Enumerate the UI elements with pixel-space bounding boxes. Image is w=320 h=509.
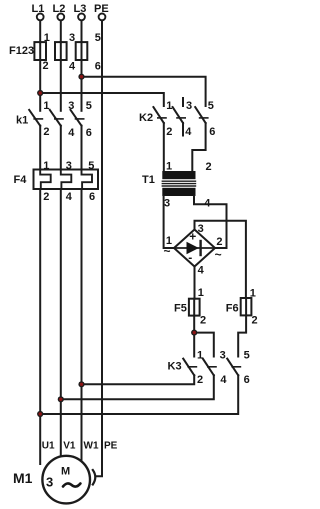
svg-text:2: 2 [206,161,212,173]
wire F6 to K3 pole 3 [238,315,246,356]
svg-text:5: 5 [88,160,94,172]
wire branch to K3 pole 2 [194,333,214,357]
node junction L1 [37,90,43,96]
svg-text:F123: F123 [9,45,34,57]
svg-text:+: + [189,230,196,244]
svg-text:1: 1 [250,287,256,299]
wire T1 pin4 to bridge [194,196,227,248]
node junction W1 [78,381,84,387]
fuse F5 [189,299,200,316]
terminal PE [99,14,106,21]
transformer T1 [162,171,195,196]
wire T1 pin3 to bridge [164,196,174,248]
svg-text:3: 3 [164,197,170,209]
svg-text:2: 2 [43,60,49,72]
node junction L3 [78,74,84,80]
svg-text:F5: F5 [174,303,187,315]
svg-text:1: 1 [44,32,50,44]
svg-text:3: 3 [186,100,192,112]
fuse F123 pole 1 [34,42,46,60]
svg-text:6: 6 [244,374,250,386]
svg-text:3: 3 [68,100,74,112]
wire L2 top [60,21,62,43]
motor M1 [42,456,95,504]
wire W1 column [81,189,83,462]
contactor K2 pole 3 [192,107,208,171]
wire PE vertical [96,21,102,477]
terminal L2 [57,14,64,21]
contactor K2 pole 2 [173,98,186,136]
svg-text:2: 2 [216,236,222,248]
svg-text:1: 1 [43,160,49,172]
svg-text:U1: U1 [42,441,55,452]
svg-text:F4: F4 [14,174,28,186]
svg-text:K2: K2 [139,112,153,124]
contactor K3 pole 3 [40,359,240,414]
wire U1 column [39,189,41,464]
svg-text:5: 5 [244,350,250,362]
svg-text:6: 6 [209,126,215,138]
svg-text:2: 2 [43,191,49,203]
svg-text:~: ~ [215,248,222,262]
svg-text:1: 1 [197,350,203,362]
wire L3 branch to K2 pole 3 [82,77,206,106]
contactor K3 pole 2 [61,359,216,400]
svg-text:-: - [188,251,192,265]
svg-text:T1: T1 [142,174,155,186]
svg-text:4: 4 [66,191,73,203]
svg-text:1: 1 [166,100,172,112]
svg-text:2: 2 [43,126,49,138]
svg-text:1: 1 [198,287,204,299]
svg-text:F6: F6 [226,303,239,315]
overload relay F4 [34,170,99,190]
contactor K2 pole 1 [153,107,166,171]
contactor k1 pole 2 [50,110,63,170]
terminal L1 [37,14,44,21]
svg-text:5: 5 [95,32,101,44]
svg-text:5: 5 [208,100,214,112]
svg-text:3: 3 [198,223,204,235]
node junction U1 [37,411,43,417]
svg-text:PE: PE [94,3,109,15]
svg-text:3: 3 [66,160,72,172]
wire L3 top [81,21,83,43]
contactor k1 pole 1 [29,110,42,170]
svg-text:M: M [61,466,70,478]
contactor k1 pole 3 [71,110,84,170]
svg-text:5: 5 [86,100,92,112]
svg-text:4: 4 [220,374,227,386]
wire L3 fuse to k1 [81,60,83,111]
wire bridge plus output [195,221,246,298]
node junction V1 [58,396,64,402]
wire L1 fuse to k1 [39,60,41,111]
svg-text:4: 4 [204,197,211,209]
wire L1 branch to K2 pole 1 [40,93,164,106]
wire L2 fuse to k1 [60,60,62,111]
svg-text:V1: V1 [63,441,76,452]
svg-text:W1: W1 [84,441,99,452]
fuse F6 [241,298,252,315]
wire L1 top [39,21,41,43]
wire V1 column [60,189,62,457]
svg-text:M1: M1 [13,470,33,486]
svg-text:3: 3 [69,32,75,44]
svg-text:~: ~ [164,244,171,258]
svg-text:3: 3 [46,475,53,490]
wire F5 to K3 pole 1 [193,316,195,357]
wire bridge minus output [194,267,196,299]
terminal L3 [78,14,85,21]
svg-text:2: 2 [166,126,172,138]
svg-text:4: 4 [68,127,75,139]
svg-text:6: 6 [89,191,95,203]
svg-text:2: 2 [200,315,206,327]
contactor K3 pole 1 [82,359,197,385]
svg-text:L1: L1 [32,3,45,15]
svg-text:6: 6 [95,61,101,73]
svg-text:2: 2 [197,374,203,386]
svg-text:6: 6 [86,127,92,139]
svg-text:K3: K3 [168,361,182,373]
svg-text:L2: L2 [53,3,66,15]
svg-text:4: 4 [198,264,205,276]
svg-text:PE: PE [104,441,118,452]
bridge rectifier [174,230,215,267]
node junction DC minus [191,330,197,336]
fuse F123 pole 3 [76,42,88,60]
fuse F123 pole 2 [55,42,67,60]
svg-text:4: 4 [185,126,192,138]
svg-text:3: 3 [220,350,226,362]
svg-text:L3: L3 [74,3,87,15]
svg-text:1: 1 [43,100,49,112]
svg-text:k1: k1 [16,115,28,127]
svg-text:2: 2 [252,314,258,326]
motor tilde [63,483,80,486]
svg-text:4: 4 [69,61,76,73]
svg-text:1: 1 [166,160,172,172]
